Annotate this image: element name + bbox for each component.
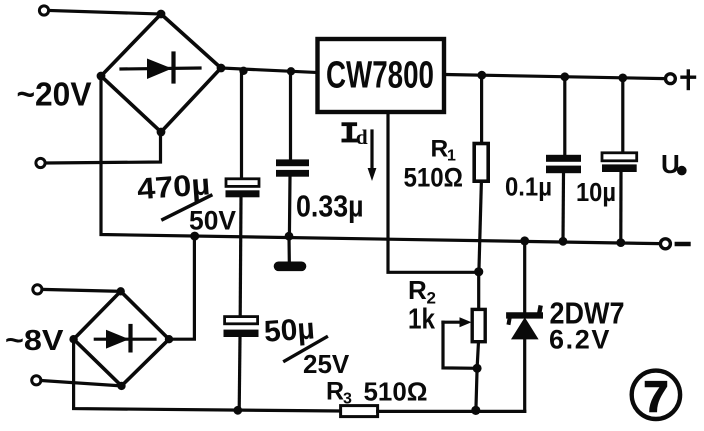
node dot C3 rail bbox=[559, 237, 568, 246]
node dot bridge2 plus on rail bbox=[190, 232, 199, 241]
bridge rectifier D2 (8V) diamond bbox=[74, 291, 169, 386]
wire bottom rail R3 to zener bbox=[378, 410, 525, 413]
minus sign bbox=[677, 242, 689, 246]
svg-text:0.1µ: 0.1µ bbox=[505, 172, 552, 202]
wire T4 to bridge2 bottom vertex bbox=[41, 381, 122, 386]
op: CW7800 regulator box U1 bbox=[318, 39, 445, 112]
terminal T4 (AC 8V bottom input) bbox=[32, 376, 41, 385]
resistor R1 top lead bbox=[480, 75, 483, 143]
svg-text:3: 3 bbox=[343, 391, 352, 408]
wire C1 bottom down across rail to C4 bbox=[239, 197, 243, 316]
svg-text:~20V: ~20V bbox=[17, 76, 92, 113]
svg-text:CW7800: CW7800 bbox=[326, 55, 434, 97]
node dot zener rail bbox=[520, 236, 529, 245]
arrow Id downward bbox=[368, 131, 377, 181]
capacitor C3 0.1u top lead bbox=[563, 77, 566, 155]
node dot 470u tap bbox=[239, 67, 247, 75]
capacitor C2 0.33u top lead bbox=[289, 71, 292, 160]
wire bridge2 right vertex up to minus rail bbox=[169, 236, 194, 339]
capacitor C1 470u column top lead bbox=[240, 71, 243, 179]
svg-text:U: U bbox=[661, 149, 680, 179]
node dot R2 bottom rail bbox=[471, 406, 480, 415]
ground stub below rail bbox=[287, 236, 290, 260]
wire T2 to bridge bottom vertex bbox=[46, 132, 161, 163]
capacitor C2 0.33u plates bbox=[276, 159, 309, 176]
node dot C4 bottom bbox=[233, 406, 242, 415]
node dots bridge D2 vertices bbox=[69, 287, 173, 390]
capacitor C1 470u plates bbox=[226, 179, 260, 198]
figure number 7 circled bbox=[632, 371, 680, 419]
node dot R2 wiper join bbox=[473, 364, 482, 373]
terminal T5 plus output bbox=[666, 74, 676, 84]
resistor R2 body (pot) bbox=[472, 309, 485, 341]
svg-text:50µ: 50µ bbox=[263, 312, 316, 348]
resistor R2 bottom lead bbox=[476, 342, 479, 411]
node dot 10u top bbox=[618, 74, 627, 83]
wire T3 to bridge2 top vertex bbox=[42, 289, 121, 291]
resistor R1 body bbox=[474, 144, 488, 182]
svg-text:~8V: ~8V bbox=[5, 325, 64, 357]
terminal T1 (AC 20V top input) bbox=[39, 6, 48, 15]
node dots bridge D1 vertices bbox=[97, 10, 226, 137]
svg-text:R: R bbox=[408, 275, 427, 305]
wiper arrow of R2 bbox=[443, 317, 477, 368]
capacitor C3 plates bbox=[546, 155, 581, 173]
terminal T6 minus output bbox=[660, 239, 670, 249]
node dot R1 top bbox=[477, 71, 486, 80]
svg-text:510Ω: 510Ω bbox=[364, 377, 428, 407]
node dot 0.33u tap bbox=[287, 67, 295, 75]
svg-text:510Ω: 510Ω bbox=[404, 163, 464, 193]
capacitor C5 plates bbox=[602, 153, 637, 172]
diode inside bridge D2 bbox=[95, 326, 155, 350]
label Id current bbox=[342, 122, 368, 149]
terminal T3 (AC 8V top input) bbox=[33, 285, 42, 294]
wire CW7800 ground pin down and right to R2 node bbox=[388, 112, 476, 272]
svg-text:d: d bbox=[356, 125, 368, 149]
resistor R3 body bbox=[341, 406, 378, 417]
svg-text:25V: 25V bbox=[303, 349, 350, 379]
wire C2 bottom to rail bbox=[288, 177, 292, 237]
svg-text:10µ: 10µ bbox=[576, 179, 616, 207]
wire bridge2 left vertex down to bottom rail, rail to R3 bbox=[74, 339, 341, 411]
wire: minus rail from bridge left vertex to minus terminal bbox=[101, 76, 659, 244]
svg-text:50V: 50V bbox=[189, 206, 236, 236]
svg-text:7: 7 bbox=[644, 373, 669, 422]
zener diode VD 2DW7 top lead bbox=[523, 241, 526, 315]
wire C5 bottom to rail bbox=[619, 172, 622, 243]
svg-text:R: R bbox=[431, 136, 449, 163]
wire T1 to bridge top vertex bbox=[49, 11, 161, 15]
capacitor C5 10u top lead bbox=[621, 78, 624, 153]
zener triangle bbox=[511, 317, 539, 339]
node dot C2 rail bbox=[285, 232, 294, 241]
bridge rectifier D1 (20V) diamond bbox=[101, 14, 221, 132]
svg-text:6.2V: 6.2V bbox=[549, 325, 611, 355]
wire CW7800 output to plus terminal bbox=[446, 75, 664, 79]
svg-text:R: R bbox=[326, 378, 344, 406]
plus sign bbox=[682, 71, 695, 89]
wire bridge right vertex to CW7800 input bbox=[221, 68, 317, 73]
node dot C5 rail bbox=[616, 238, 625, 247]
node dot ADJ junction bbox=[474, 267, 483, 276]
svg-text:1k: 1k bbox=[408, 304, 436, 336]
zener bar bbox=[509, 312, 540, 318]
capacitor C4 50u plates bbox=[224, 317, 259, 337]
wire C4 bottom to bottom rail bbox=[238, 337, 242, 410]
svg-text:0.33µ: 0.33µ bbox=[296, 189, 364, 224]
node dot 0.1u top bbox=[560, 72, 569, 81]
diode inside bridge D1 bbox=[121, 54, 200, 82]
fraction slash 470u/50V bbox=[161, 195, 212, 221]
wire C3 bottom to rail bbox=[561, 173, 565, 241]
terminal T2 (AC 20V bottom input) bbox=[36, 158, 45, 167]
fraction slash 50u/25V bbox=[283, 336, 328, 362]
zener bottom lead bbox=[523, 339, 526, 412]
resistor R1 bottom lead to ADJ node bbox=[479, 181, 482, 272]
ground bar bbox=[279, 261, 302, 271]
resistor R2 top lead bbox=[477, 272, 480, 310]
